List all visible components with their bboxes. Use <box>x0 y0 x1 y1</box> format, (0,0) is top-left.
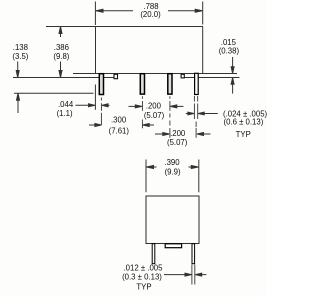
wire body left edge <box>95 27 97 74</box>
end view body <box>146 196 199 244</box>
dimension .015 arrows <box>231 57 234 94</box>
svg-text:.138: .138 <box>13 43 28 52</box>
end view left pin <box>152 244 155 264</box>
svg-text:(0.6 ± 0.13): (0.6 ± 0.13) <box>224 118 264 127</box>
svg-text:.300: .300 <box>111 116 127 125</box>
centerline below pin 3 <box>169 96 171 138</box>
svg-text:(7.61): (7.61) <box>109 126 130 135</box>
svg-text:(5.07): (5.07) <box>167 138 188 147</box>
wire body bottom line extended <box>73 73 237 75</box>
dimension .300 arrows <box>89 124 154 127</box>
dimension .138 lower arrow <box>17 93 20 113</box>
svg-text:.200: .200 <box>170 129 186 138</box>
dimension .200 upper arrows <box>129 105 184 108</box>
wire body top edge extended left <box>46 26 203 28</box>
wire pin tip reference line <box>14 92 94 94</box>
svg-text:.044: .044 <box>58 100 74 109</box>
dimension .390 arrows <box>147 166 199 169</box>
centerline below pin 2 <box>141 96 143 128</box>
standoff stub right <box>181 74 184 78</box>
dimension .386 lower arrow <box>59 62 62 78</box>
svg-text:(20.0): (20.0) <box>140 10 161 19</box>
end view bottom notch <box>165 244 181 248</box>
svg-text:(0.38): (0.38) <box>219 47 240 56</box>
pin 4 edge extension lines <box>194 96 197 119</box>
dimension .024 arrows and leader <box>186 112 218 115</box>
dimension .138 upper arrow <box>16 62 19 78</box>
svg-text:(0.3 ± 0.13): (0.3 ± 0.13) <box>122 272 162 281</box>
dimension .386 upper arrow <box>59 27 62 38</box>
svg-text:(9.9): (9.9) <box>165 167 181 176</box>
wire body right edge <box>202 27 204 74</box>
dimension .044 arrows <box>76 104 110 107</box>
pin 2 side view <box>140 74 144 94</box>
svg-text:.012 ± .005: .012 ± .005 <box>124 264 164 273</box>
svg-text:(3.5): (3.5) <box>12 52 28 61</box>
dimension .788 (20.0) arrows <box>96 9 202 12</box>
extension line body left edge for .044 <box>94 85 96 110</box>
end view dimension .390 extension lines <box>146 160 199 193</box>
centerline below pin 1 <box>100 98 102 126</box>
pin 1 side view <box>99 74 103 95</box>
standoff stub left <box>114 74 118 78</box>
centerline below pin 4 <box>195 122 197 138</box>
svg-text:TYP: TYP <box>136 282 151 291</box>
pin 4 side view open <box>195 73 199 94</box>
dimension .200 lower arrows <box>155 133 211 136</box>
svg-text:.386: .386 <box>54 43 69 52</box>
svg-text:(5.07): (5.07) <box>144 111 165 120</box>
pin 3 side view <box>168 74 172 94</box>
end view right pin <box>192 244 195 264</box>
wire standoff plane line <box>13 77 117 79</box>
svg-text:(1.1): (1.1) <box>57 109 73 118</box>
dimension .012 arrows <box>164 273 206 276</box>
svg-text:(9.8): (9.8) <box>53 52 69 61</box>
svg-text:TYP: TYP <box>236 130 251 139</box>
dimension .788 (20.0) extension lines <box>95 2 202 26</box>
svg-text:.200: .200 <box>146 102 162 111</box>
right pin edge extension lines <box>192 265 195 285</box>
svg-text:.390: .390 <box>164 158 180 167</box>
